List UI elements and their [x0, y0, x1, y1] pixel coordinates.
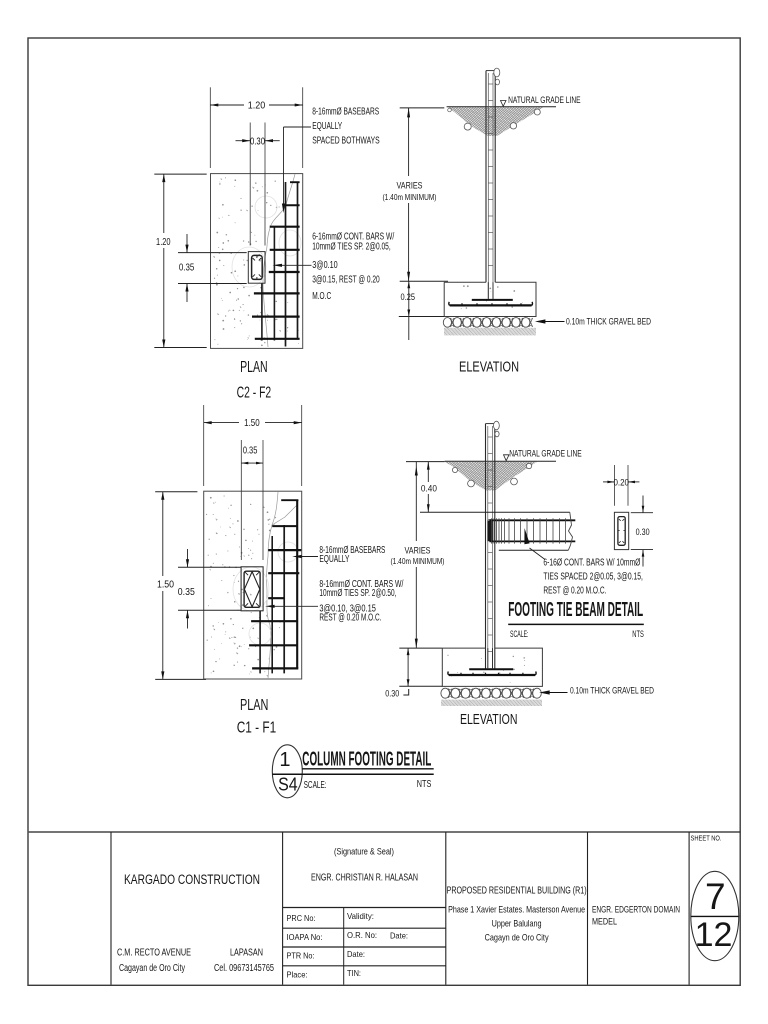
svg-text:0.40: 0.40 — [421, 484, 437, 495]
elevation2 natural grade line — [445, 460, 556, 462]
tie beam label leader — [530, 548, 546, 560]
plan C1-F1 dimension 0.35 extension lines — [240, 440, 242, 560]
tie beam section box — [614, 512, 628, 549]
elevation1 gravel label leader arrow — [545, 321, 565, 323]
svg-text:3@0.10: 3@0.10 — [312, 260, 338, 271]
svg-text:1.20: 1.20 — [156, 236, 171, 248]
elevation1 ground hatch band — [444, 328, 536, 336]
svg-text:0.25: 0.25 — [401, 292, 416, 303]
svg-text:PLAN: PLAN — [240, 697, 269, 714]
elevation2 varies dimension text — [391, 541, 443, 567]
svg-text:Phase 1 Xavier Estates. Master: Phase 1 Xavier Estates. Masterson Avenue — [448, 905, 585, 916]
elevation1 varies dimension line — [408, 108, 410, 281]
plan C1-F1 left dimension text 1.50 — [153, 576, 175, 591]
elevation2 footing bottom rebar — [449, 674, 535, 676]
elevation1 footing bottom extension line — [399, 316, 444, 318]
elevation1 natural grade line — [447, 106, 556, 108]
svg-text:1.20: 1.20 — [248, 100, 266, 112]
sheet title divider line — [272, 773, 433, 775]
svg-text:ENGR. CHRISTIAN R. HALASAN: ENGR. CHRISTIAN R. HALASAN — [311, 873, 418, 884]
elevation1 grade marker triangle — [501, 101, 507, 107]
elevation1 earth pebbles — [464, 123, 471, 130]
svg-text:Place:: Place: — [287, 970, 308, 980]
svg-text:KARGADO CONSTRUCTION: KARGADO CONSTRUCTION — [124, 872, 260, 887]
svg-text:10mmØ TIES SP. 2@0.05,: 10mmØ TIES SP. 2@0.05, — [312, 242, 391, 253]
svg-text:0.35: 0.35 — [178, 586, 195, 598]
svg-text:0.20: 0.20 — [613, 477, 629, 488]
elevation2 gravel label leader arrow — [549, 692, 568, 694]
svg-text:Upper Balulang: Upper Balulang — [492, 919, 542, 930]
plan C2-F2 left dimension text 1.20 — [152, 233, 174, 248]
footing tie beam detail underline — [508, 623, 644, 625]
svg-text:NTS: NTS — [632, 629, 644, 640]
svg-text:8-16mmØ BASEBARS: 8-16mmØ BASEBARS — [312, 107, 379, 118]
svg-text:1.50: 1.50 — [244, 417, 260, 429]
plan C2-F2 rebar vertical bars — [261, 283, 263, 340]
elevation2 column base T-bar — [469, 668, 513, 670]
elevation2 column shaft — [485, 424, 487, 670]
elevation1 footing outline — [444, 282, 536, 316]
plan C2-F2 dimension 0.35 lines — [178, 252, 247, 254]
plan C2-F2 leader to cont bars label — [280, 264, 312, 266]
tie beam section dimension 0.20 arrows — [603, 481, 614, 483]
svg-text:PROPOSED RESIDENTIAL BUILDING: PROPOSED RESIDENTIAL BUILDING (R1) — [447, 886, 587, 897]
svg-text:SCALE:: SCALE: — [304, 779, 327, 791]
svg-text:ENGR. EDGERTON DOMAIN: ENGR. EDGERTON DOMAIN — [592, 905, 680, 916]
title block sheet number divider — [691, 915, 739, 917]
svg-text:C1 - F1: C1 - F1 — [237, 720, 277, 737]
plan C1-F1 footing outline — [204, 491, 302, 679]
svg-text:Validity:: Validity: — [347, 911, 374, 921]
title block outer top line — [29, 831, 741, 833]
svg-text:0.10m THICK GRAVEL BED: 0.10m THICK GRAVEL BED — [566, 317, 651, 328]
svg-text:Date:: Date: — [347, 949, 365, 959]
elevation2 footing stipple — [480, 657, 483, 660]
plan C1-F1 column diamond tie — [244, 572, 259, 607]
plan C2-F2 footing outline — [211, 174, 303, 349]
elevation1 varies dimension extension top — [400, 107, 445, 109]
svg-text:0.10m THICK GRAVEL BED: 0.10m THICK GRAVEL BED — [570, 686, 654, 697]
plan C2-F2 rebar horizontal bars — [290, 181, 300, 183]
plan C1-F1 concrete stipple — [206, 514, 207, 515]
elevation2 footing outline — [442, 648, 542, 686]
plan C2-F2 top dimension text 1.20 — [244, 98, 269, 111]
svg-text:VARIES: VARIES — [397, 181, 423, 192]
plan C1-F1 column box — [241, 567, 263, 611]
tie beam section dimension 0.30 extension lines — [631, 512, 653, 514]
plan C1-F1 leader to cont bars label — [270, 605, 319, 607]
svg-text:0.30: 0.30 — [385, 689, 399, 700]
elevation1 column base T-bar — [472, 299, 513, 301]
svg-text:SCALE:: SCALE: — [510, 629, 529, 640]
elevation1 gravel bed — [443, 318, 451, 328]
plan C1-F1 column inner ties — [244, 571, 260, 607]
svg-text:0.30: 0.30 — [250, 135, 265, 147]
svg-text:REST @ 0.20 M.O.C.: REST @ 0.20 M.O.C. — [319, 613, 381, 624]
elevation2 column lap ticks — [488, 436, 493, 438]
svg-text:C2 - F2: C2 - F2 — [237, 385, 272, 402]
tie beam section inner ties — [618, 517, 625, 546]
svg-text:PTR No:: PTR No: — [287, 951, 315, 961]
svg-text:Cel. 09673145765: Cel. 09673145765 — [214, 963, 274, 974]
sheet title bubble ellipse — [272, 745, 302, 798]
plan C1-F1 dimension 0.35 arrows — [241, 462, 263, 464]
title block vertical dividers — [110, 832, 112, 985]
plan C2-F2 dimension 0.30 extension lines — [249, 123, 251, 246]
svg-text:1: 1 — [279, 749, 290, 771]
tie beam bottom line — [499, 549, 569, 551]
elevation1 footing bottom rebar — [450, 304, 532, 306]
svg-text:SPACED BOTHWAYS: SPACED BOTHWAYS — [312, 135, 380, 146]
tie beam top bar — [489, 519, 575, 521]
svg-text:3@0.15, REST @ 0.20: 3@0.15, REST @ 0.20 — [312, 274, 380, 285]
plan C2-F2 dimension 0.30 arrows — [236, 140, 251, 142]
plan C2-F2 top dimension 1.20 extension lines — [209, 87, 211, 168]
plan C2-F2 left dimension 1.20 extension lines — [154, 173, 206, 175]
plan C1-F1 left dimension 1.50 extension lines — [155, 491, 197, 493]
plan C2-F2 top dimension 1.20 line and arrows — [210, 104, 302, 106]
tie beam top line — [420, 511, 570, 513]
plan C2-F2 left dimension 1.20 line and arrows — [163, 174, 165, 347]
svg-text:COLUMN FOOTING DETAIL: COLUMN FOOTING DETAIL — [302, 748, 431, 770]
svg-text:REST @ 0.20 M.O.C.: REST @ 0.20 M.O.C. — [543, 586, 606, 597]
elevation2 column rebar anchor dark fill — [487, 521, 492, 542]
sheet title underline — [302, 768, 433, 770]
plan C2-F2 column ties detail — [252, 255, 263, 279]
plan C1-F1 crack line — [267, 492, 297, 679]
elevation2 footing top extension line — [399, 647, 442, 649]
svg-text:EQUALLY: EQUALLY — [319, 554, 349, 565]
plan C1-F1 left dimension 1.50 line and arrows — [162, 492, 164, 680]
title block sheet number ellipse — [691, 871, 739, 960]
elevation1 varies dimension text — [390, 176, 428, 203]
svg-text:SHEET NO.: SHEET NO. — [691, 834, 722, 843]
elevation1 column lap ticks — [488, 83, 493, 85]
elevation2 dimension 0.40 line — [427, 462, 429, 513]
svg-text:6-16Ø CONT. BARS W/ 10mmØ: 6-16Ø CONT. BARS W/ 10mmØ — [543, 558, 640, 569]
plan C2-F2 crack line — [263, 174, 295, 347]
elevation2 varies dimension line — [415, 462, 417, 648]
elevation1 earth hatch mound — [448, 107, 543, 136]
svg-text:Cagayn de Oro City: Cagayn de Oro City — [485, 933, 549, 944]
svg-text:VARIES: VARIES — [405, 546, 431, 557]
plan C2-F2 dimension 0.35 arrows — [186, 234, 188, 253]
svg-text:1.50: 1.50 — [157, 579, 174, 591]
svg-text:(Signature & Seal): (Signature & Seal) — [334, 847, 394, 857]
plan C2-F2 concrete stipple — [234, 270, 236, 272]
svg-text:PLAN: PLAN — [240, 359, 268, 376]
elevation2 earth hatch mound — [445, 462, 537, 491]
tie beam section dimension 0.30 arrows — [642, 496, 644, 513]
elevation2 dimension 0.40 extension — [406, 461, 445, 463]
title block prc sub-table lines — [283, 907, 446, 909]
elevation1 footing stipple — [461, 304, 462, 305]
plan C1-F1 faint circles — [278, 542, 298, 562]
elevation1 dimension 0.25 line — [408, 281, 410, 316]
plan C1-F1 dimension 0.35 left text — [175, 584, 198, 598]
svg-text:10mmØ TIES SP. 2@0.50,: 10mmØ TIES SP. 2@0.50, — [319, 588, 396, 599]
svg-text:TIES SPACED 2@0.05, 3@0.15,: TIES SPACED 2@0.05, 3@0.15, — [543, 572, 643, 583]
svg-text:S4: S4 — [278, 775, 298, 795]
plan C2-F2 leader to basebars label — [284, 126, 312, 128]
elevation1 column top circles — [494, 68, 500, 77]
elevation1 column shaft — [485, 71, 487, 283]
svg-text:PRC No:: PRC No: — [287, 913, 316, 923]
svg-text:TIN:: TIN: — [347, 968, 361, 978]
svg-text:C.M. RECTO AVENUE: C.M. RECTO AVENUE — [117, 948, 191, 959]
plan C2-F2 faint circles — [255, 196, 277, 218]
svg-text:M.O.C: M.O.C — [312, 291, 331, 302]
plan C1-F1 rebar horizontal bars — [281, 499, 298, 501]
elevation2 dimension 0.30 bottom extension — [399, 685, 442, 687]
plan C1-F1 top dimension 1.50 line and arrows — [204, 422, 302, 424]
svg-text:NATURAL GRADE LINE: NATURAL GRADE LINE — [509, 449, 582, 460]
elevation2 ground hatch band — [441, 700, 542, 706]
tie beam section dimension 0.20 extension lines — [613, 465, 615, 506]
elevation2 dimension 0.40 text — [418, 482, 440, 494]
svg-text:ELEVATION: ELEVATION — [459, 360, 519, 376]
plan C2-F2 dimension text 0.35 — [175, 259, 198, 273]
svg-text:NTS: NTS — [417, 778, 432, 790]
svg-text:Cagayan de Oro City: Cagayan de Oro City — [119, 963, 185, 974]
svg-text:0.30: 0.30 — [636, 527, 650, 538]
elevation2 gravel bed — [441, 688, 450, 698]
elevation2 earth pebbles — [452, 467, 457, 472]
plan C1-F1 top dimension text 1.50 — [239, 416, 265, 429]
elevation1 footing extension line — [400, 280, 448, 282]
svg-text:EQUALLY: EQUALLY — [312, 121, 342, 132]
svg-text:0.35: 0.35 — [179, 261, 195, 273]
svg-text:Date:: Date: — [390, 931, 408, 941]
elevation2 column top circles — [494, 421, 500, 430]
svg-text:12: 12 — [695, 916, 733, 954]
svg-text:O.R. No:: O.R. No: — [347, 930, 377, 940]
tie beam bottom bar — [489, 540, 575, 542]
plan C2-F2 column box — [248, 252, 265, 284]
plan C1-F1 dimension 0.35 left arrows — [187, 549, 189, 567]
elevation2 dimension 0.30 line — [407, 648, 409, 686]
svg-text:IOAPA No:: IOAPA No: — [287, 932, 323, 942]
tie beam break line — [568, 512, 572, 550]
svg-text:LAPASAN: LAPASAN — [230, 948, 263, 959]
plan C1-F1 rebar vertical bars — [259, 611, 261, 673]
svg-text:NATURAL GRADE LINE: NATURAL GRADE LINE — [508, 95, 580, 106]
svg-text:MEDEL: MEDEL — [592, 917, 617, 928]
svg-text:ELEVATION: ELEVATION — [460, 712, 518, 728]
svg-text:FOOTING TIE BEAM DETAIL: FOOTING TIE BEAM DETAIL — [508, 598, 643, 621]
svg-text:7: 7 — [705, 876, 726, 917]
plan C1-F1 leader to basebars label — [297, 556, 319, 558]
plan C1-F1 top dimension 1.50 extension lines — [203, 405, 205, 486]
elevation2 grade marker triangle — [504, 455, 510, 461]
tie beam stirrup ticks — [491, 518, 493, 543]
svg-text:0.35: 0.35 — [243, 445, 258, 457]
svg-text:(1.40m MINIMUM): (1.40m MINIMUM) — [383, 192, 437, 202]
svg-text:(1.40m MINIMUM): (1.40m MINIMUM) — [391, 556, 445, 566]
plan C1-F1 dimension 0.35 left lines — [178, 566, 241, 568]
